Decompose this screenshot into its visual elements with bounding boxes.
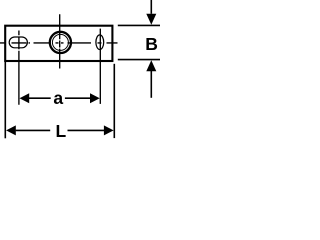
B bottom extension line [118, 59, 160, 61]
svg-text:B: B [145, 34, 158, 54]
B top extension line [118, 24, 160, 26]
L dimension line left segment [16, 129, 51, 131]
a dimension right arrow [90, 93, 100, 103]
a dimension line left segment [29, 97, 51, 99]
svg-text:a: a [53, 88, 63, 108]
L right extension line [113, 64, 115, 138]
B bottom arrow [146, 60, 156, 71]
L dimension right arrow [104, 125, 114, 135]
a dimension line right segment [65, 97, 90, 99]
plate outline [5, 26, 112, 61]
a dimension left arrow [20, 93, 30, 103]
L left extension line [4, 61, 6, 138]
slot hole [9, 37, 27, 48]
B dimension line bottom segment [150, 71, 152, 98]
ellipse vertical centerline [99, 29, 101, 104]
B dimension line top segment [150, 0, 152, 14]
big hole outer circle [50, 32, 71, 53]
circle vertical centerline [59, 14, 61, 68]
L dimension left arrow [6, 125, 16, 135]
svg-text:L: L [55, 121, 66, 141]
slot vertical centerline [18, 31, 20, 105]
big hole inner circle [52, 34, 68, 50]
L dimension line right segment [68, 129, 105, 131]
right oval hole [96, 35, 104, 50]
B top arrow [146, 14, 156, 25]
horizontal centerline [0, 42, 118, 44]
